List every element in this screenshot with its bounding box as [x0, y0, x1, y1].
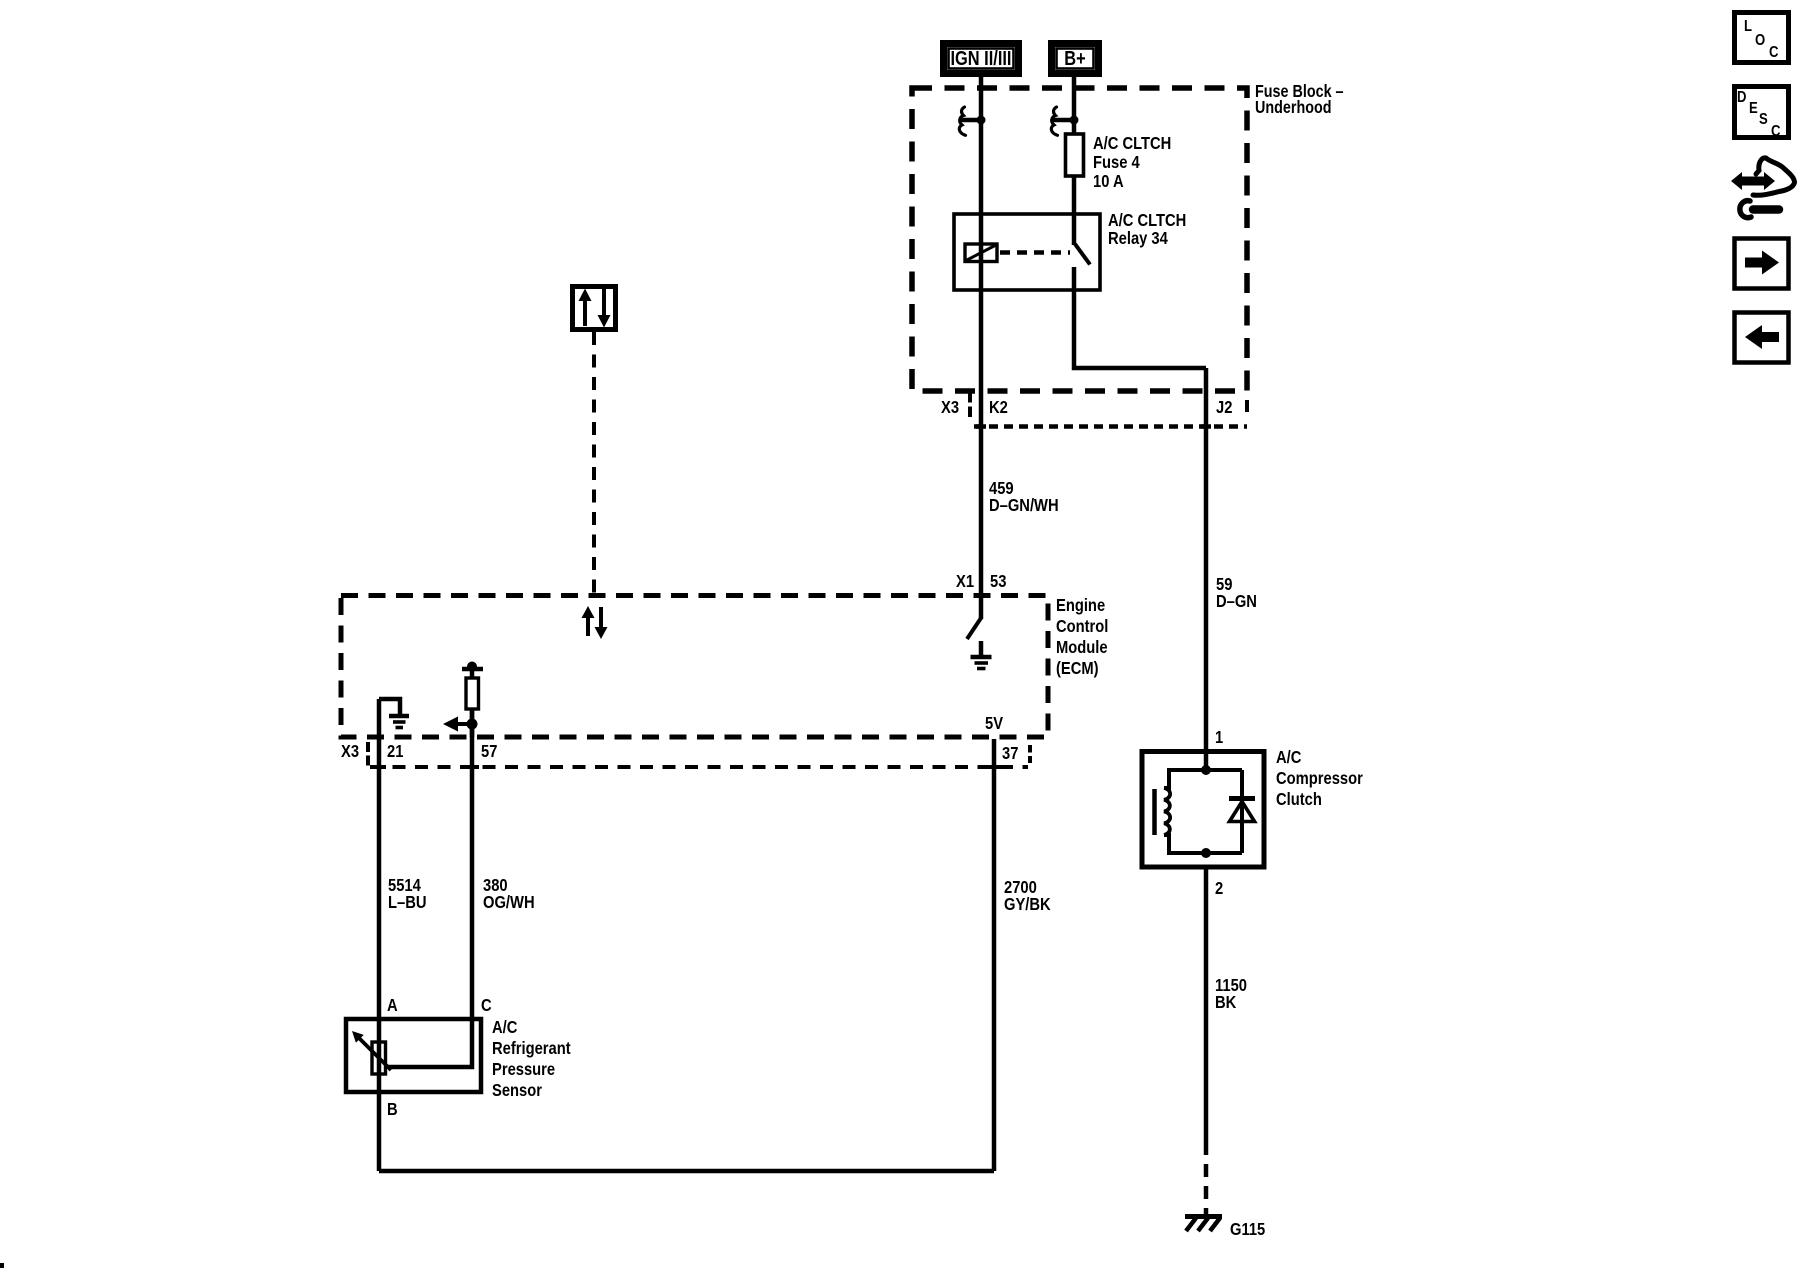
A/C refrigerant pressure sensor box: [346, 1019, 481, 1092]
dashed wire to ground splice: [1204, 1164, 1209, 1216]
svg-text:A/C: A/C: [492, 1018, 518, 1038]
wire relay switch to J2 corner: [1074, 267, 1206, 368]
tick at pin 57 wire crossing: [465, 765, 479, 769]
bottom wire pin B to pin 37: [379, 1169, 994, 1174]
sidebar forward arrow button: [1735, 239, 1789, 289]
wire ECM pin 37 down (2700 GY/BK): [992, 739, 997, 1171]
svg-text:OG/WH: OG/WH: [483, 893, 535, 913]
connector separator dashes: [968, 392, 972, 417]
svg-text:5V: 5V: [985, 714, 1003, 734]
svg-text:S: S: [1759, 111, 1768, 128]
ECM switch pin 53: [979, 595, 984, 619]
node junction dot pin 2 side: [1201, 848, 1211, 858]
potentiometer: [352, 1031, 391, 1074]
svg-text:GY/BK: GY/BK: [1004, 895, 1051, 915]
svg-text:Clutch: Clutch: [1276, 790, 1322, 810]
diode: [1229, 799, 1255, 822]
svg-text:Underhood: Underhood: [1255, 99, 1332, 118]
wire ECM pin 57 to sensor pin C (380 OG/WH): [388, 709, 472, 1067]
svg-text:A: A: [387, 996, 398, 1016]
ground (ECM pin 53): [971, 641, 992, 669]
wire IGN II/III to relay coil and down to K2: [979, 77, 984, 595]
resistor stub: [470, 669, 475, 678]
svg-text:Compressor: Compressor: [1276, 769, 1363, 789]
svg-text:Fuse 4: Fuse 4: [1093, 153, 1140, 173]
relay A/C CLTCH Relay 34 box: [954, 214, 1100, 290]
svg-text:A/C CLTCH: A/C CLTCH: [1093, 134, 1171, 154]
svg-text:C: C: [1771, 123, 1781, 140]
svg-text:X1: X1: [956, 572, 974, 592]
svg-text:2: 2: [1215, 879, 1223, 899]
svg-text:C: C: [1769, 44, 1779, 61]
clutch internal wires: [1164, 751, 1242, 855]
clutch plate bar: [1152, 789, 1157, 835]
tick at pin 21 wire crossing: [372, 765, 386, 769]
svg-text:X3: X3: [941, 398, 959, 418]
svg-text:E: E: [1749, 100, 1758, 117]
wire fuse to relay switch: [1072, 176, 1077, 245]
resistor (ECM pin 57): [466, 678, 479, 709]
svg-text:IGN II/III: IGN II/III: [951, 46, 1012, 69]
node junction dot pin 1 side: [1201, 765, 1211, 775]
svg-text:G115: G115: [1230, 1220, 1265, 1240]
connector terminal on B+ wire: [1051, 107, 1078, 135]
svg-text:L–BU: L–BU: [388, 893, 427, 913]
svg-text:Module: Module: [1056, 638, 1108, 658]
sidebar LOC button: [1735, 13, 1789, 63]
wire resistor to arrow junction: [470, 709, 475, 737]
data link arrows box: [573, 287, 616, 330]
wire J2 down to clutch (59 D-GN): [1204, 368, 1209, 751]
power feed box IGN II/III: [944, 44, 1019, 74]
relay dashed actuation link: [1000, 250, 1070, 255]
svg-text:A/C: A/C: [1276, 748, 1302, 768]
svg-text:21: 21: [387, 742, 403, 762]
power feed box B+: [1052, 44, 1099, 74]
svg-text:B+: B+: [1064, 46, 1085, 69]
svg-text:Sensor: Sensor: [492, 1081, 543, 1101]
svg-text:O: O: [1755, 32, 1765, 49]
svg-text:Relay 34: Relay 34: [1108, 229, 1169, 249]
ECM internal ground corner (pin 21): [379, 699, 400, 714]
svg-text:X3: X3: [341, 742, 359, 762]
clutch coil: [1164, 788, 1170, 835]
svg-text:C: C: [481, 996, 492, 1016]
serial data arrows inside ECM: [582, 606, 608, 639]
sidebar DESC button: [1735, 87, 1789, 141]
arrow at pin 57: [443, 717, 478, 732]
svg-text:L: L: [1744, 18, 1752, 35]
svg-text:(ECM): (ECM): [1056, 659, 1099, 679]
relay coil: [965, 244, 997, 262]
ground (ECM pin 21): [389, 716, 409, 728]
ECM connector separator dashes: [366, 742, 370, 766]
svg-text:D–GN: D–GN: [1216, 592, 1257, 612]
fuse block underhood dashed box: [912, 88, 1247, 391]
engine control module (ECM) dashed box: [341, 596, 1048, 738]
connector terminal on IGN wire: [959, 107, 985, 135]
svg-text:J2: J2: [1216, 398, 1232, 418]
wire B+ to fuse: [1072, 77, 1077, 134]
svg-text:1: 1: [1215, 728, 1223, 748]
svg-text:37: 37: [1002, 744, 1018, 764]
dashed link from arrows box to ECM: [592, 332, 596, 595]
wire sensor pin B to bottom corner: [377, 1092, 382, 1171]
svg-text:Engine: Engine: [1056, 596, 1105, 616]
wire clutch pin 2 down (1150 BK): [1204, 867, 1209, 1155]
svg-text:Control: Control: [1056, 617, 1108, 637]
svg-text:57: 57: [481, 742, 497, 762]
svg-text:10 A: 10 A: [1093, 172, 1124, 192]
sidebar back arrow button: [1735, 313, 1789, 363]
relay switch blade: [1075, 244, 1090, 265]
svg-text:Pressure: Pressure: [492, 1060, 555, 1080]
tick at pin 37 wire crossing: [987, 765, 1001, 769]
svg-text:D: D: [1737, 89, 1746, 106]
svg-text:53: 53: [990, 572, 1006, 592]
A/C compressor clutch box: [1142, 752, 1264, 868]
fuse A/C CLTCH Fuse 4 10 A: [1066, 134, 1084, 176]
svg-text:K2: K2: [989, 398, 1008, 418]
chassis ground G115: [1185, 1217, 1222, 1232]
svg-text:Refrigerant: Refrigerant: [492, 1039, 571, 1059]
ECM connector row dotted line: [370, 765, 1028, 769]
stray mark bottom left: [0, 1263, 4, 1268]
wire ECM pin 21 to sensor pin A (5514 L-BU): [377, 699, 382, 1092]
svg-text:B: B: [387, 1100, 398, 1120]
tick at J2 wire crossing: [1201, 424, 1211, 429]
svg-text:A/C CLTCH: A/C CLTCH: [1108, 211, 1186, 231]
connector row dotted line: [974, 424, 1247, 429]
svg-text:D–GN/WH: D–GN/WH: [989, 496, 1059, 516]
resistor terminal bar (pin 57): [462, 662, 483, 672]
svg-text:BK: BK: [1215, 993, 1236, 1013]
tick at K2 wire crossing: [976, 424, 986, 429]
sidebar wrench/arrows icon: [1731, 158, 1795, 218]
